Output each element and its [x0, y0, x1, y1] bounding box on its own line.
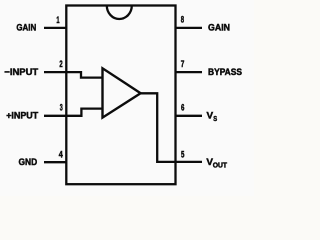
- svg-text:−INPUT: −INPUT: [4, 67, 38, 78]
- wire pin 8 GAIN lead: [176, 27, 203, 29]
- wire op-amp output to pin 5 VOUT lead: [141, 93, 202, 162]
- pin-1 index notch: [107, 6, 132, 20]
- wire pin 7 BYPASS lead: [176, 71, 203, 73]
- svg-text:7: 7: [181, 59, 185, 69]
- svg-text:3: 3: [60, 103, 63, 113]
- svg-text:GAIN: GAIN: [208, 23, 230, 34]
- svg-text:S: S: [213, 116, 217, 123]
- svg-text:GND: GND: [19, 157, 38, 168]
- wire pin 3 +INPUT lead to non-inverting input: [44, 109, 103, 116]
- op-amp U1 (DIP-8 package body): [66, 6, 175, 185]
- op-amp amplifier triangle: [103, 68, 141, 117]
- svg-text:GAIN: GAIN: [16, 23, 36, 34]
- svg-text:2: 2: [59, 59, 62, 69]
- svg-text:BYPASS: BYPASS: [208, 67, 243, 78]
- wire pin 6 VS lead: [176, 115, 203, 117]
- svg-text:4: 4: [59, 149, 63, 159]
- svg-text:OUT: OUT: [213, 162, 228, 169]
- svg-text:8: 8: [181, 15, 184, 25]
- svg-text:5: 5: [181, 150, 184, 160]
- svg-text:+INPUT: +INPUT: [6, 111, 38, 122]
- wire pin 2 -INPUT lead to inverting input: [44, 72, 103, 78]
- svg-text:1: 1: [56, 15, 59, 25]
- wire pin 4 GND lead: [44, 161, 66, 163]
- wire pin 1 GAIN lead: [44, 27, 66, 29]
- svg-text:6: 6: [181, 103, 184, 113]
